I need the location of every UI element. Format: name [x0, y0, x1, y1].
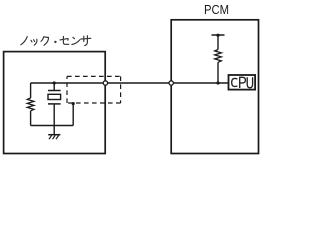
power supply bar (in PCM) [212, 34, 225, 36]
node: supply junction dot [216, 34, 219, 37]
connector: sensor terminal (open circle) [103, 81, 107, 85]
knock sensor enclosure box [4, 52, 106, 154]
node: shield drain junction [72, 102, 75, 105]
wire: harness from sensor to PCM [105, 82, 171, 84]
ground (chassis ground, sensor) [48, 134, 60, 136]
label: CPU [232, 77, 253, 88]
wire: shield drain to bottom rail [72, 104, 74, 126]
node: pull-up to signal wire junction [216, 81, 219, 84]
wire: sensor bottom rail [31, 125, 74, 127]
connector: PCM terminal (open circle) [169, 81, 173, 85]
shield (dashed screen around harness) [67, 76, 121, 103]
wire: piezo lead to chassis ground [53, 126, 55, 135]
wire: PCM internal wire to CPU [171, 82, 228, 84]
CPU box [229, 75, 256, 90]
PCM enclosure box [171, 20, 258, 154]
resistor R2 (PCM pull-up) [217, 35, 219, 50]
wire: sensor internal top rail [31, 82, 106, 84]
node: piezo top junction [53, 81, 56, 84]
label: knock sensor "ノック・センサ" [21, 36, 91, 46]
svg-text:PCM: PCM [204, 2, 229, 17]
resistor R1 (sensor shunt) [30, 83, 32, 98]
piezo element (knock sensor crystal) [53, 83, 55, 91]
